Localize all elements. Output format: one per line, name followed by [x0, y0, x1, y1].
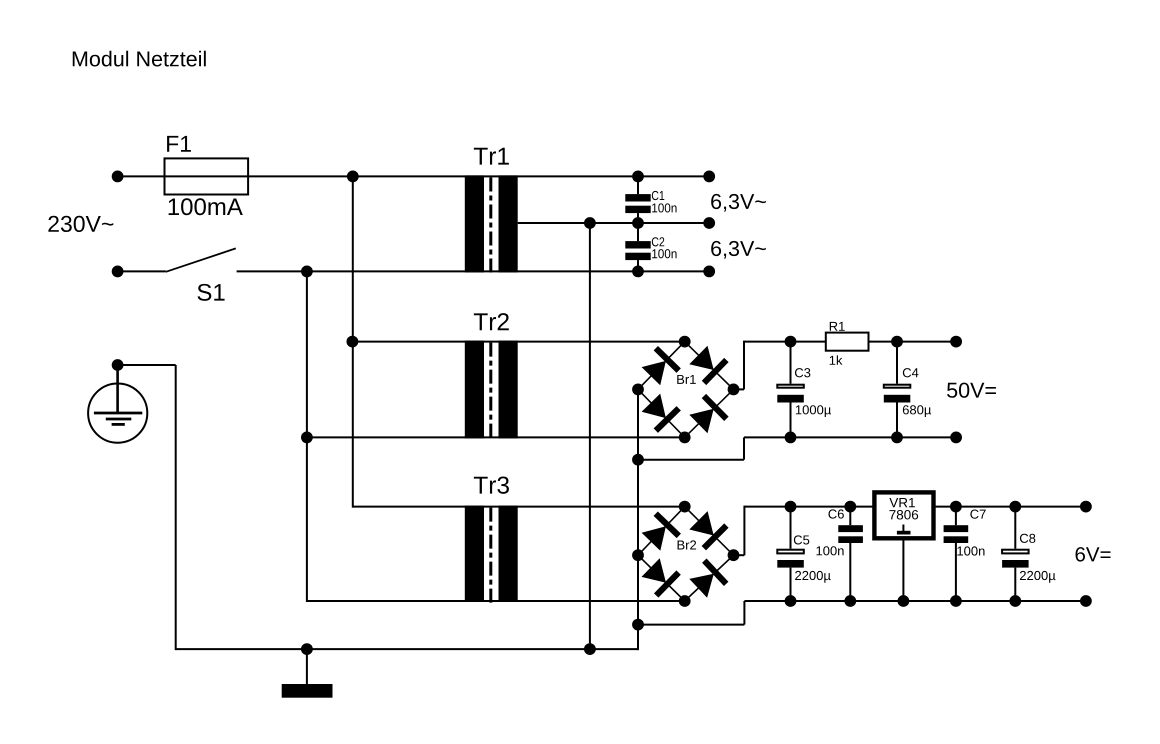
- wire earth terminal horizontal: [118, 364, 176, 366]
- wire fuse junction vertical: [352, 176, 354, 507]
- wire mains bottom left to switch: [118, 270, 166, 272]
- node Br1 AC top vertex: [679, 336, 691, 348]
- label C4: [903, 368, 919, 377]
- bridge Br2 diode D2: [689, 511, 726, 548]
- label Tr3: [474, 476, 509, 493]
- label R1: [830, 322, 845, 331]
- wire VR1 output 6V plus rail: [934, 506, 1086, 508]
- transformer Tr1 core line: [489, 178, 492, 277]
- bridge Br1 diamond outline: [638, 342, 734, 438]
- terminal protective earth: [112, 359, 124, 371]
- wire bridges minus vertical: [637, 389, 639, 650]
- terminal 6.3V common tap: [703, 217, 715, 229]
- regulator VR1 box: [874, 492, 933, 538]
- wire Tr2 top row to Br1 top vertex: [352, 341, 684, 343]
- label C6: [828, 509, 843, 518]
- bridge Br2 diamond outline: [638, 507, 734, 601]
- label C7 value 100n: [957, 546, 984, 555]
- terminal 50V return output: [950, 432, 962, 444]
- wire C4 leads: [896, 342, 898, 384]
- junction C4 bottom: [891, 432, 903, 444]
- wire C7 leads: [955, 507, 957, 526]
- earth symbol: [88, 365, 147, 443]
- wire Tr1 middle tap row: [518, 222, 710, 224]
- terminal 230V live input: [112, 171, 124, 183]
- wire mains top row 230V to Tr1 and 6.3V top: [118, 175, 710, 177]
- transformer Tr1 windings: [465, 175, 518, 272]
- bridge Br2 diode D3: [642, 558, 679, 595]
- junction Br1 minus to 50V return: [632, 454, 644, 466]
- junction Tr1 centre tap: [584, 217, 596, 229]
- junction C6 bottom: [844, 595, 856, 607]
- wire Br1 plus step vertical: [743, 341, 745, 390]
- label C1: [652, 191, 664, 200]
- wire Br2 right vertex stub: [734, 554, 745, 556]
- capacitor C6 plates: [838, 525, 863, 543]
- wire Br2 minus step horizontal: [638, 624, 744, 626]
- junction VR1 ground: [898, 595, 910, 607]
- junction C8 top: [1009, 501, 1021, 513]
- node Br1 plus vertex: [728, 384, 740, 396]
- terminal 6.3V output A top: [703, 171, 715, 183]
- transformer Tr2 core line: [489, 343, 492, 442]
- wire 50V plus rail right part: [869, 341, 957, 343]
- wire C6 leads: [849, 507, 851, 526]
- label C5: [794, 535, 809, 544]
- transformer Tr3 core line: [489, 508, 492, 606]
- label C8 value 2200u: [1020, 571, 1055, 583]
- wire bottom earth rail: [176, 648, 638, 650]
- label C7: [970, 510, 985, 519]
- fuse F1: [165, 158, 249, 194]
- label VR1: [889, 498, 915, 507]
- label 6V=: [1076, 547, 1111, 562]
- wire 6V zero rail: [744, 600, 1086, 602]
- wire VR1 ground pin: [902, 541, 904, 602]
- label C5 value 2200u: [795, 571, 830, 583]
- wire C8 leads: [1014, 507, 1016, 549]
- capacitor C4 plates electrolytic: [884, 385, 911, 403]
- junction C1 top / 6.3V winding A top: [632, 171, 644, 183]
- label C1 value 100n: [652, 203, 676, 212]
- junction C7 top / VR1 output: [950, 501, 962, 513]
- capacitor C7 plates: [944, 525, 969, 543]
- wire Tr2 bottom row to Br1 bottom vertex: [307, 436, 685, 438]
- capacitor C3 plates electrolytic: [777, 385, 804, 403]
- junction earth rail to chassis: [301, 643, 313, 655]
- node Br1 minus vertex: [632, 384, 644, 396]
- wire Tr3 bottom row to Br2 bottom vertex: [307, 600, 685, 602]
- wire 6V plus rail to VR1 input: [744, 506, 874, 508]
- wire C2 top lead: [637, 223, 639, 241]
- node Br2 AC top vertex: [679, 501, 691, 513]
- junction C1-C2 midpoint: [632, 217, 644, 229]
- label 50V=: [947, 383, 996, 398]
- switch S1 blade: [166, 248, 236, 271]
- junction C2 bottom / winding B bottom: [632, 266, 644, 278]
- bridge Br1 diode D4: [689, 396, 726, 433]
- terminal 6V return output: [1080, 595, 1092, 607]
- wire middle tap vertical: [589, 223, 591, 649]
- wire C5 leads: [790, 507, 792, 549]
- terminal 230V neutral input: [112, 266, 124, 278]
- junction C5 top: [785, 501, 797, 513]
- bridge Br2 diode D4: [689, 561, 726, 598]
- capacitor C1 plates: [625, 194, 650, 213]
- wire 50V zero rail: [744, 436, 956, 438]
- node Br1 AC bottom vertex: [679, 432, 691, 444]
- bridge Br1 diode D3: [642, 394, 679, 431]
- transformer Tr3 windings: [465, 506, 518, 602]
- node Br2 plus vertex: [728, 549, 740, 561]
- terminal 50V positive output: [950, 336, 962, 348]
- label 6,3V~ lower: [711, 241, 766, 259]
- capacitor C5 plates electrolytic: [777, 550, 804, 568]
- wire switch junction vertical: [306, 271, 308, 602]
- label C3: [795, 368, 810, 377]
- regulator VR1 ground tab: [897, 525, 911, 535]
- label R1 value 1k: [830, 355, 843, 364]
- label 6,3V~ upper: [711, 194, 766, 212]
- junction R1 output / C4 top: [891, 336, 903, 348]
- wire switch to Tr1 bottom and 6.3V bottom: [237, 270, 710, 272]
- junction C3 bottom: [785, 432, 797, 444]
- label C8: [1020, 534, 1035, 543]
- label S1: [197, 284, 224, 301]
- junction switch output node: [301, 266, 313, 278]
- junction C6 top / VR1 input: [844, 501, 856, 513]
- node Br2 minus vertex: [632, 549, 644, 561]
- bridge Br2 diode D1: [642, 514, 679, 551]
- label C3 value 1000u: [796, 405, 831, 417]
- wire C2 bottom lead: [637, 260, 639, 271]
- wire C3 leads: [790, 342, 792, 384]
- label Br2: [678, 540, 697, 549]
- label F1: [167, 136, 191, 152]
- junction centre tap to earth rail: [584, 643, 596, 655]
- label Br1: [677, 375, 696, 384]
- junction Tr2 primary bottom: [301, 432, 313, 444]
- wire Br1 right vertex stub: [734, 388, 745, 390]
- wire Tr3 top row to Br2 top vertex: [353, 506, 685, 508]
- node Br2 AC bottom vertex: [679, 595, 691, 607]
- junction Br2 minus to 6V return: [632, 619, 644, 631]
- terminal 6.3V output B bottom: [703, 266, 715, 278]
- chassis ground bar: [282, 684, 333, 698]
- junction C7 bottom: [950, 595, 962, 607]
- resistor R1: [826, 333, 869, 351]
- transformer Tr2 windings: [465, 341, 518, 439]
- wire C1 bottom lead: [637, 213, 639, 223]
- wire Br1 minus step vertical: [743, 437, 745, 459]
- title Modul Netzteil: [73, 51, 206, 67]
- junction C3 top / 50V raw node: [785, 336, 797, 348]
- label 100mA: [169, 198, 243, 215]
- junction C5 bottom: [785, 595, 797, 607]
- capacitor C8 plates electrolytic: [1002, 550, 1029, 568]
- bridge Br1 diode D1: [642, 348, 679, 385]
- wire C1 top lead: [637, 176, 639, 194]
- label C2 value 100n: [652, 249, 676, 258]
- wire Br1 minus step horizontal: [638, 459, 744, 461]
- terminal 6V positive output: [1080, 501, 1092, 513]
- label Tr1: [474, 148, 509, 165]
- bridge Br1 diode D2: [689, 346, 726, 383]
- label C2: [652, 237, 664, 246]
- wire Br2 plus step vertical: [743, 506, 745, 556]
- wire Br2 minus step vertical: [743, 601, 745, 625]
- wire 50V plus rail left part: [744, 341, 826, 343]
- capacitor C2 plates: [625, 241, 650, 260]
- junction fuse output node: [347, 171, 359, 183]
- wire earth vertical: [175, 365, 177, 650]
- label Tr2: [474, 313, 509, 330]
- wire chassis ground stub: [306, 649, 308, 684]
- label 230V~: [48, 216, 113, 232]
- junction Tr2 primary top: [347, 336, 359, 348]
- junction C8 bottom: [1009, 595, 1021, 607]
- label C6 value 100n: [816, 546, 843, 555]
- label C4 value 680u: [903, 405, 931, 417]
- label VR1 value 7806: [889, 510, 918, 520]
